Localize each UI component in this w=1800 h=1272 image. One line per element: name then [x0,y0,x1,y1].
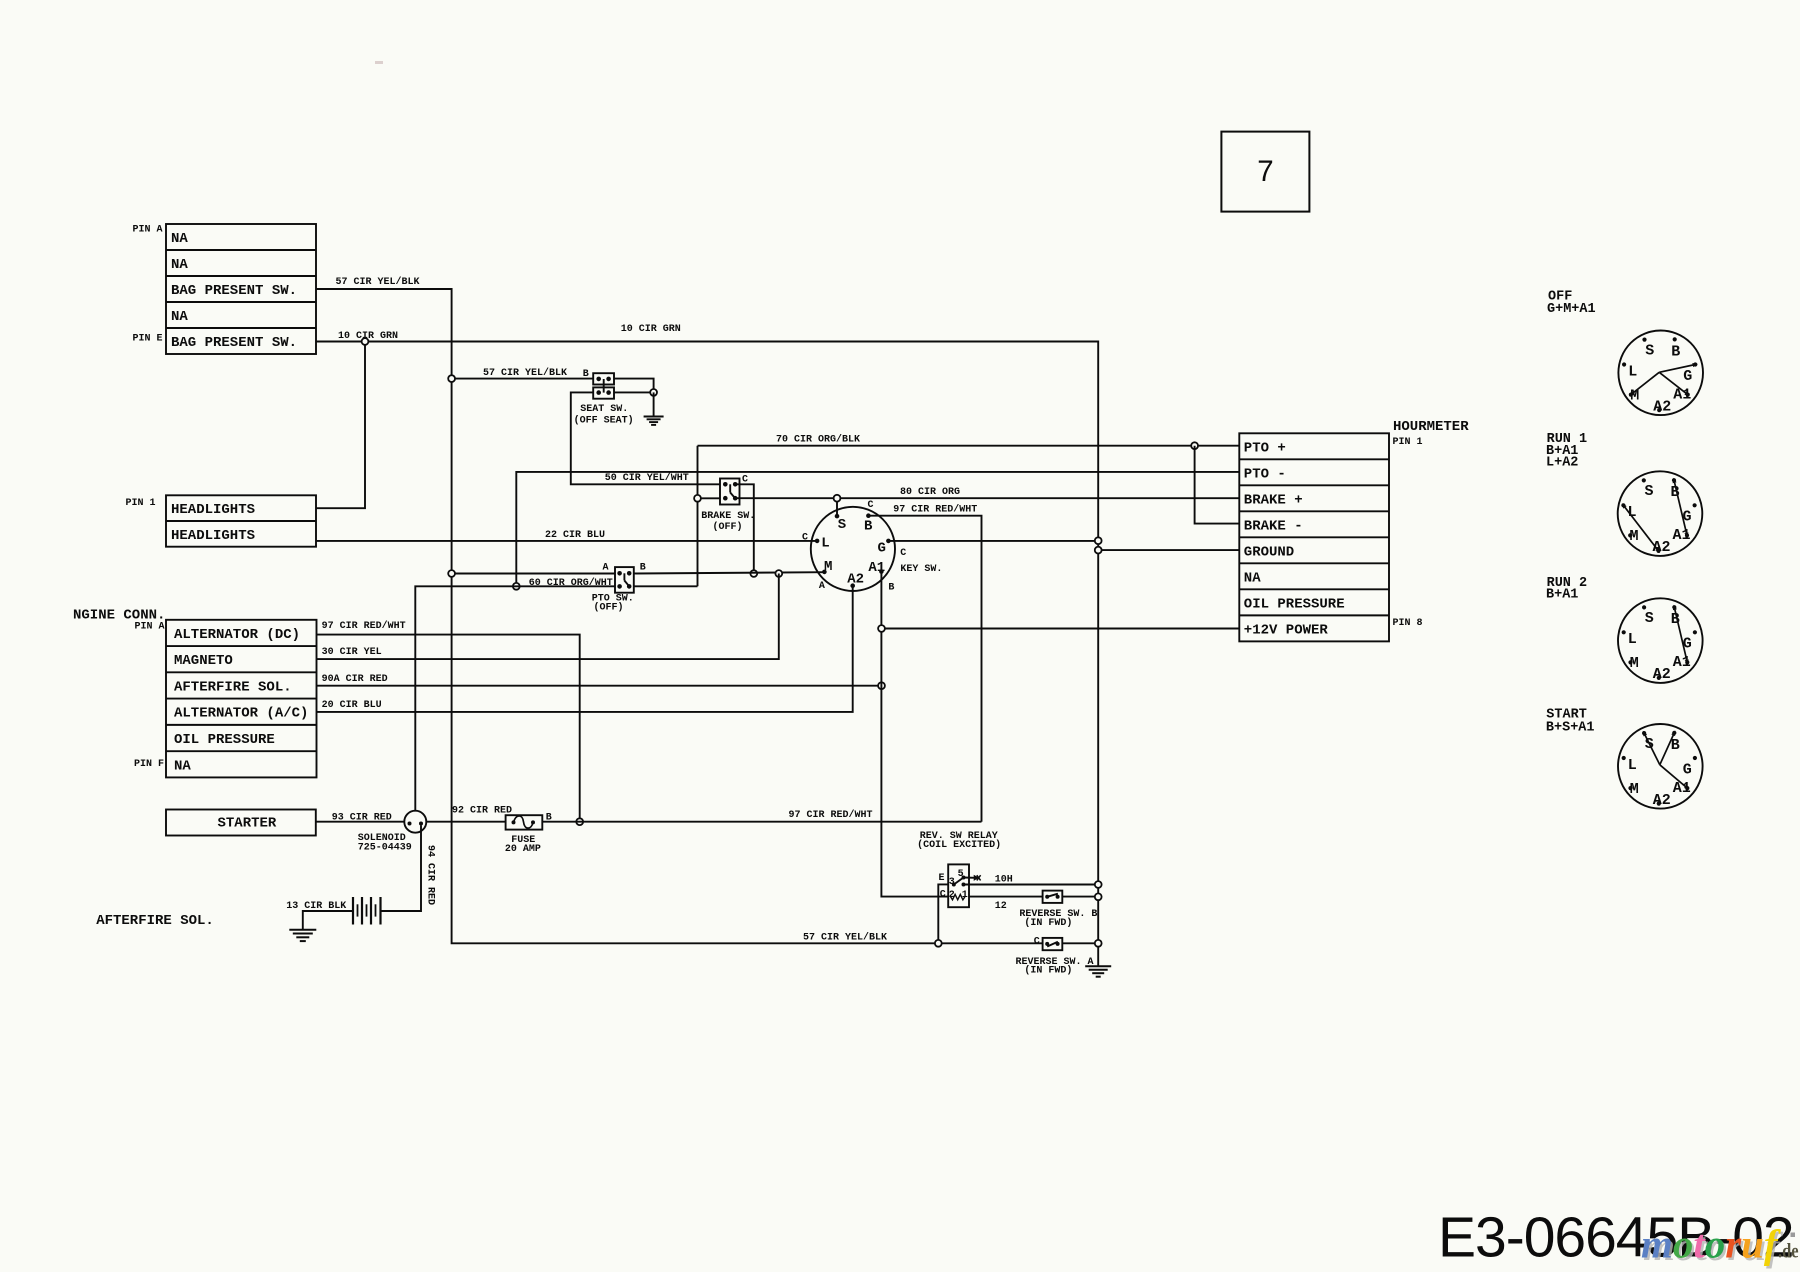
label B below A1 [888,583,894,594]
label G+M+A1 [1547,302,1596,317]
svg-text:ALTERNATOR (A/C): ALTERNATOR (A/C) [174,706,308,722]
svg-text:94 CIR RED: 94 CIR RED [425,845,436,905]
svg-text:80 CIR ORG: 80 CIR ORG [900,487,960,498]
reverse switch relay box [948,864,969,907]
svg-text:50 CIR YEL/WHT: 50 CIR YEL/WHT [605,472,689,484]
svg-text:PIN 1: PIN 1 [1393,437,1423,448]
svg-text:A: A [603,563,609,574]
svg-text:A2: A2 [847,572,864,588]
wire 60 CIR ORG/WHT [415,586,697,810]
svg-text:725-04439: 725-04439 [358,842,412,853]
wire starter to solenoid [316,821,405,823]
key switch terminal L [815,536,830,552]
svg-text:NA: NA [1244,570,1261,586]
key switch terminal B [864,513,873,534]
label NGINE CONN. [73,607,165,623]
svg-text:(OFF SEAT): (OFF SEAT) [574,415,634,427]
wire +12V POWER feed [882,628,1240,630]
junction node reverse B on bus [1095,893,1102,900]
label HOURMETER [1393,419,1469,435]
reverse switch B box [1043,891,1063,903]
svg-text:BRAKE SW.: BRAKE SW. [701,511,755,522]
label B (fuse) [546,813,552,824]
wire brake sw bottom-left stub [698,497,721,499]
svg-text:PTO +: PTO + [1244,440,1286,456]
label START [1546,708,1587,723]
junction node 57/M line [448,570,455,577]
wire stub 80 line to key switch S [836,498,838,514]
label C (relay) [940,889,946,900]
label 57 CIR YEL/BLK (bottom) [803,932,887,944]
wire 22 CIR BLU headlights row2 to key switch L [316,540,815,542]
label 97 CIR RED/WHT (key) [893,504,977,516]
fuse box [506,815,543,829]
connector J1 (bag switches) box with rows NA/NA/BAG PRESENT SW./NA/BAG PRESENT SW. [166,224,316,354]
PTO switch box [615,567,634,593]
svg-text:BAG PRESENT SW.: BAG PRESENT SW. [171,283,297,299]
svg-text:A2: A2 [1653,666,1671,683]
label BRAKE SW. [701,511,755,522]
svg-text:97 CIR RED/WHT: 97 CIR RED/WHT [789,809,873,821]
svg-text:A1: A1 [868,560,885,576]
wire 20 CIR BLU alt A/C to key A2 [317,586,853,712]
wire M line (PTO switch row) [452,572,825,573]
svg-text:G: G [1683,761,1692,778]
pin label PIN A (bag connector) [133,225,163,236]
svg-text:G: G [878,541,886,557]
label REVERSE SW. B [1019,909,1097,920]
label 90A CIR RED [322,674,388,685]
junction node 57/seat branch [448,375,455,382]
label (OFF) pto [594,601,624,613]
svg-text:HEADLIGHTS: HEADLIGHTS [171,528,255,544]
junction node relay E on 57 line [935,940,942,947]
junction node ground wire on bus [1095,547,1102,554]
label 13 CIR BLK [286,901,346,912]
svg-text:B: B [640,563,646,574]
svg-text:AFTERFIRE SOL.: AFTERFIRE SOL. [96,913,214,929]
wire 57 branch to seat switch [452,378,594,380]
relay arm and K contact [954,875,981,884]
relay pin 2 label [949,890,955,901]
svg-text:A2: A2 [1653,398,1671,415]
svg-text:OIL PRESSURE: OIL PRESSURE [174,732,275,748]
label B (seat switch) [583,369,589,380]
label B+A1 (run1) [1546,444,1578,459]
svg-text:PIN E: PIN E [133,334,163,345]
svg-text:M: M [1630,655,1639,672]
junction node on 10 CIR GRN at headlight riser [362,338,369,345]
label E (relay) [939,873,945,884]
svg-text:93 CIR RED: 93 CIR RED [332,813,392,824]
seat switch lower contact block [593,387,614,398]
tiny scan speckles [375,61,383,64]
svg-text:C: C [940,889,946,900]
svg-text:70 CIR ORG/BLK: 70 CIR ORG/BLK [776,434,860,446]
wire solenoid to fuse [426,821,505,823]
svg-text:(COIL EXCITED): (COIL EXCITED) [917,839,1001,851]
ground (right bus) [1085,966,1111,977]
svg-text:C: C [868,500,874,511]
label AFTERFIRE SOL. (left) [96,913,214,929]
battery symbol [353,897,381,925]
label KEY SW. [900,564,942,575]
wire 70 CIR ORG/BLK vertical through brake junction [697,446,699,587]
label (IN FWD) B [1024,917,1072,929]
svg-text:HEADLIGHTS: HEADLIGHTS [171,502,255,518]
label (OFF SEAT) [574,415,634,427]
svg-text:20 CIR BLU: 20 CIR BLU [322,700,382,711]
pin label PIN 8 (hourmeter) [1393,618,1423,629]
pin label PIN E (bag connector) [133,334,163,345]
label 50 CIR YEL/WHT [605,472,689,484]
junction node 70/brake [694,495,701,502]
hourmeter connector box rows [1239,433,1389,641]
svg-text:BRAKE +: BRAKE + [1244,492,1303,508]
svg-text:97 CIR RED/WHT: 97 CIR RED/WHT [322,620,406,632]
relay pin mid [962,883,966,887]
watermark motoruf.de [1641,1222,1799,1269]
label 10H [995,875,1013,886]
svg-text:L: L [821,536,829,552]
svg-text:PIN 8: PIN 8 [1393,618,1423,629]
svg-text:60 CIR ORG/WHT: 60 CIR ORG/WHT [529,577,613,589]
svg-text:57 CIR YEL/BLK: 57 CIR YEL/BLK [336,276,420,288]
svg-text:PIN 1: PIN 1 [126,498,156,509]
junction node power/97 riser [576,818,583,825]
wire seat switch to ground [653,392,655,416]
svg-text:E: E [939,873,945,884]
ground (seat switch) [644,417,664,425]
label RUN 1 [1547,432,1588,447]
svg-text:57 CIR YEL/BLK: 57 CIR YEL/BLK [483,367,567,379]
wire headlights row1 riser to 10 CIR GRN line [316,342,365,509]
svg-text:S: S [1645,483,1654,500]
pin label PIN A (engine conn) [135,621,165,632]
wire 80 CIR ORG brake sw to hourmeter BRAKE+ [735,497,1239,499]
svg-text:+12V POWER: +12V POWER [1244,622,1329,638]
svg-text:M: M [1630,781,1639,798]
wire reverse sw B to bus [1062,896,1098,898]
svg-text:12: 12 [995,901,1007,912]
PTO switch actuator [624,573,628,586]
wire 97 CIR RED/WHT from key B down to power line [868,516,981,822]
svg-text:.de: .de [1778,1239,1799,1263]
wire 30 CIR YEL magneto riser [317,574,779,660]
connector headlights box [166,495,316,546]
starter box [166,810,316,836]
label C right of G [900,548,906,559]
key position circle OFF (G+M+A1) [1618,331,1703,416]
svg-text:A2: A2 [1653,792,1671,809]
svg-text:3: 3 [949,877,955,888]
label 30 CIR YEL [322,647,382,658]
label 22 CIR BLU [545,530,605,541]
key position circle START (B+S+A1) [1618,724,1703,809]
label RUN 2 [1547,576,1588,591]
relay pin 3 [949,877,956,888]
svg-text:S: S [838,517,846,533]
pin label PIN F (engine conn) [134,759,164,770]
svg-text:B: B [583,369,589,380]
svg-text:L: L [1628,363,1637,380]
page number box 7 [1221,132,1309,212]
svg-text:7: 7 [1257,155,1273,188]
label 93 CIR RED [332,813,392,824]
ground (battery) [289,930,316,941]
svg-text:A: A [819,581,825,592]
svg-text:92 CIR RED: 92 CIR RED [452,805,512,816]
label (COIL EXCITED) [917,839,1001,851]
key switch terminal G [878,539,891,557]
svg-text:NA: NA [171,309,188,325]
junction node 80/S stub [834,495,841,502]
wire 50 CIR YEL/WHT to hourmeter PTO- [516,472,1239,586]
svg-text:S: S [1645,342,1654,359]
key position circle RUN 2 (B+A1) [1618,598,1703,683]
label (IN FWD) A [1024,964,1072,976]
label OFF [1548,289,1572,304]
seat switch actuator link [603,379,605,393]
wire 97 CIR RED/WHT engine alt DC riser [317,635,580,822]
svg-text:L: L [1628,631,1637,648]
svg-text:(IN FWD): (IN FWD) [1024,917,1072,929]
label 725-04439 [358,842,412,853]
svg-text:22 CIR BLU: 22 CIR BLU [545,530,605,541]
wire 70 CIR ORG/BLK to hourmeter PTO+ [698,445,1240,447]
label 57 CIR YEL/BLK (top) [336,276,420,288]
wire relay coil out to reverse sw B [969,896,1043,898]
svg-text:L+A2: L+A2 [1546,456,1578,471]
svg-text:90A CIR RED: 90A CIR RED [322,674,388,685]
svg-text:B: B [864,519,873,535]
seat switch upper contact block [593,373,614,384]
label 57 CIR YEL/BLK (seat) [483,367,567,379]
svg-text:20 AMP: 20 AMP [505,844,541,855]
svg-text:97 CIR RED/WHT: 97 CIR RED/WHT [893,504,977,516]
label (OFF) brake [713,521,743,533]
svg-text:GROUND: GROUND [1244,544,1294,560]
svg-text:motoruf: motoruf [1641,1222,1781,1267]
key switch terminal M [822,559,832,575]
junction node G wire on bus [1095,537,1102,544]
svg-text:PIN F: PIN F [134,759,164,770]
wire brake sw top-right to M line [735,484,754,573]
key switch terminal A2 [847,572,864,589]
label C (brake switch) [742,475,748,486]
svg-text:ALTERNATOR (DC): ALTERNATOR (DC) [174,627,300,643]
svg-text:BAG PRESENT SW.: BAG PRESENT SW. [171,335,297,351]
junction node 50/60 wires [513,583,520,590]
svg-text:L: L [1628,757,1637,774]
label 94 CIR RED vertical [425,845,436,905]
svg-text:(OFF): (OFF) [594,601,624,613]
label REVERSE SW. A [1016,957,1094,968]
svg-text:KEY SW.: KEY SW. [900,564,942,575]
svg-text:G+M+A1: G+M+A1 [1547,302,1596,317]
label 92 CIR RED [452,805,512,816]
label B+S+A1 (start) [1546,721,1595,736]
wire 94 CIR RED solenoid to battery [381,826,421,912]
svg-text:BRAKE -: BRAKE - [1244,518,1303,534]
label 12 [995,901,1007,912]
svg-text:NA: NA [171,231,188,247]
relay pin 1 label [962,890,968,901]
label 70 CIR ORG/BLK [776,434,860,446]
wire 90A CIR RED afterfire to A1 wire [317,685,882,687]
junction node magneto riser on M line [775,570,782,577]
relay coil [951,894,965,899]
label A (PTO sw) [603,563,609,574]
label SEAT SW. [580,404,628,415]
wire hourmeter GROUND row [1098,549,1239,551]
label A below M [819,581,825,592]
junction node PTO+/BRAKE- tie [1191,442,1198,449]
junction node A1/+12V [878,625,885,632]
wire relay E to 57 line [938,884,948,943]
junction node 90A on A1 wire [878,682,885,689]
label B (PTO sw) [640,563,646,574]
svg-text:B: B [888,583,894,594]
wire 57 CIR YEL/BLK from bag sw down and across bottom [316,289,1098,943]
wire 13 CIR BLK battery to ground [303,911,353,930]
reverse switch A box [1043,938,1063,950]
label 10 CIR GRN (left) [338,331,398,342]
drawing number E3-06645B-02 [1438,1206,1794,1270]
svg-text:OIL PRESSURE: OIL PRESSURE [1244,596,1345,612]
svg-text:SEAT SW.: SEAT SW. [580,404,628,415]
junction node brake riser on M line [750,570,757,577]
junction node 10H on bus [1095,881,1102,888]
label C left of L [802,532,808,543]
brake switch actuator [730,484,734,497]
label 80 CIR ORG [900,487,960,498]
label 97 CIR RED/WHT (engine) [322,620,406,632]
svg-text:B+A1: B+A1 [1546,588,1578,603]
junction node seat switch right [650,389,657,396]
svg-text:PTO -: PTO - [1244,466,1286,482]
label C above B [868,500,874,511]
svg-text:B+S+A1: B+S+A1 [1546,721,1595,736]
label C (reverse A) [1034,937,1040,948]
svg-text:HOURMETER: HOURMETER [1393,419,1469,435]
svg-text:C: C [900,548,906,559]
svg-text:(OFF): (OFF) [713,521,743,533]
svg-text:S: S [1645,610,1654,627]
svg-text:C: C [1034,937,1040,948]
svg-text:AFTERFIRE SOL.: AFTERFIRE SOL. [174,679,292,695]
svg-text:M: M [824,559,832,575]
svg-text:MAGNETO: MAGNETO [174,653,233,669]
svg-text:(IN FWD): (IN FWD) [1024,964,1072,976]
svg-text:M: M [1630,528,1639,545]
brake switch box [720,479,740,505]
label 20 AMP [505,844,541,855]
label 60 CIR ORG/WHT [529,577,613,589]
label 20 CIR BLU [322,700,382,711]
wire fuse to 97 riser corner [542,821,981,823]
label L+A2 (run1) [1546,456,1578,471]
wire seat switch right side loop [614,379,654,393]
svg-text:C: C [802,532,808,543]
key switch terminal S [835,514,846,533]
wire 10 CIR GRN from bag sw to far right and down to ground [316,342,1098,967]
svg-text:30 CIR YEL: 30 CIR YEL [322,647,382,658]
svg-text:57 CIR YEL/BLK: 57 CIR YEL/BLK [803,932,887,944]
wire relay 10H output [964,884,1099,886]
svg-text:NA: NA [174,758,191,774]
svg-text:PIN A: PIN A [135,621,165,632]
wire seat switch lower-left to brake switch (50 circuit feed) [571,392,720,484]
label PTO SW. [592,594,634,605]
label 10 CIR GRN (right) [621,324,681,335]
label B+A1 (run2) [1546,588,1578,603]
wire key A1 down to relay coil [881,572,948,897]
engine connector box rows [166,620,317,778]
svg-text:STARTER: STARTER [218,816,277,832]
label FUSE [511,835,535,846]
solenoid circle [404,811,426,833]
relay pin 5 [958,869,966,880]
svg-text:G: G [1683,368,1692,385]
svg-text:13 CIR BLK: 13 CIR BLK [286,901,346,912]
key switch terminal A1 [868,560,885,576]
svg-text:PIN A: PIN A [133,225,163,236]
svg-text:NA: NA [171,257,188,273]
wire G terminal to ground bus [888,540,1098,542]
wire tie PTO+ to BRAKE- row [1195,446,1240,524]
key switch circle [811,507,895,591]
label REV. SW RELAY [920,831,998,842]
label 97 CIR RED/WHT (power) [789,809,873,821]
pin label PIN 1 (hourmeter) [1393,437,1423,448]
svg-text:B: B [1671,343,1680,360]
svg-text:10 CIR GRN: 10 CIR GRN [621,324,681,335]
pin label PIN 1 (headlights) [126,498,156,509]
junction node 57-bottom on bus [1095,940,1102,947]
key position circle RUN 1 (B+A1, L+A2) [1618,471,1703,556]
label SOLENOID [358,833,406,844]
svg-text:10H: 10H [995,875,1013,886]
